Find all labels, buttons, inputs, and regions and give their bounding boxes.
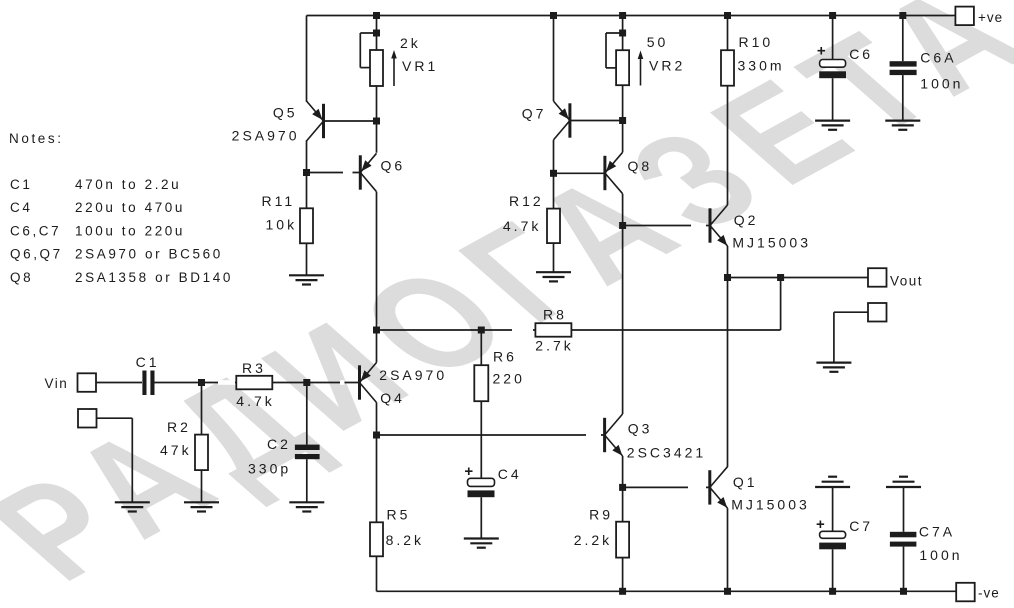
svg-text:+: + xyxy=(464,463,473,480)
svg-text:MJ15003: MJ15003 xyxy=(732,235,811,251)
svg-text:330m: 330m xyxy=(738,58,785,74)
svg-text:2SC3421: 2SC3421 xyxy=(627,445,706,461)
svg-text:Q1: Q1 xyxy=(733,474,758,490)
svg-text:220u to 470u: 220u to 470u xyxy=(75,200,185,215)
svg-text:Q6: Q6 xyxy=(381,158,406,174)
svg-text:2SA970: 2SA970 xyxy=(232,128,300,144)
svg-text:100n: 100n xyxy=(920,76,963,92)
svg-text:C6A: C6A xyxy=(920,50,956,66)
svg-text:C4: C4 xyxy=(10,200,32,215)
svg-text:220: 220 xyxy=(493,371,525,387)
svg-text:330p: 330p xyxy=(248,461,291,477)
svg-text:2.7k: 2.7k xyxy=(535,338,573,354)
svg-text:2.2k: 2.2k xyxy=(574,532,612,548)
svg-text:2SA970 or BC560: 2SA970 or BC560 xyxy=(75,247,223,262)
svg-text:47k: 47k xyxy=(160,442,192,458)
svg-text:R2: R2 xyxy=(167,419,191,435)
svg-text:Q4: Q4 xyxy=(380,390,405,406)
svg-text:Q6,Q7: Q6,Q7 xyxy=(10,247,63,262)
svg-text:Vout: Vout xyxy=(890,274,923,289)
svg-text:C4: C4 xyxy=(498,466,522,482)
svg-text:R12: R12 xyxy=(509,193,544,209)
svg-text:Q2: Q2 xyxy=(734,212,759,228)
svg-text:Q8: Q8 xyxy=(628,158,653,174)
svg-text:Q5: Q5 xyxy=(273,105,298,121)
svg-text:C7A: C7A xyxy=(919,524,955,540)
svg-text:R11: R11 xyxy=(262,193,296,209)
svg-text:R8: R8 xyxy=(543,307,567,323)
svg-text:+: + xyxy=(816,516,825,533)
svg-text:-ve: -ve xyxy=(978,586,1000,601)
svg-text:C1: C1 xyxy=(10,177,32,192)
svg-text:R5: R5 xyxy=(387,507,411,523)
svg-text:2k: 2k xyxy=(400,35,421,51)
svg-text:Q7: Q7 xyxy=(522,106,547,122)
svg-text:C7: C7 xyxy=(849,518,873,534)
svg-text:+: + xyxy=(817,43,826,60)
svg-text:Vin: Vin xyxy=(45,376,69,391)
svg-text:Q3: Q3 xyxy=(628,421,653,437)
svg-text:Notes:: Notes: xyxy=(9,131,64,146)
svg-text:R10: R10 xyxy=(739,34,774,50)
svg-text:C2: C2 xyxy=(267,436,291,452)
svg-text:VR1: VR1 xyxy=(402,58,438,74)
svg-text:+ve: +ve xyxy=(978,10,1003,25)
svg-text:VR2: VR2 xyxy=(649,58,685,74)
svg-text:C6: C6 xyxy=(849,46,873,62)
svg-text:R9: R9 xyxy=(589,507,613,523)
svg-text:4.7k: 4.7k xyxy=(503,218,541,234)
svg-text:10k: 10k xyxy=(266,217,298,233)
svg-text:50: 50 xyxy=(647,34,669,50)
svg-text:C6,C7: C6,C7 xyxy=(10,223,61,238)
svg-text:Q8: Q8 xyxy=(10,270,33,285)
svg-text:100u to 220u: 100u to 220u xyxy=(75,223,185,238)
svg-text:470n to 2.2u: 470n to 2.2u xyxy=(75,177,181,192)
svg-text:8.2k: 8.2k xyxy=(386,532,424,548)
svg-text:R3: R3 xyxy=(242,360,266,376)
svg-text:MJ15003: MJ15003 xyxy=(731,497,810,513)
svg-text:C1: C1 xyxy=(136,354,160,370)
svg-text:100n: 100n xyxy=(919,547,962,563)
svg-text:R6: R6 xyxy=(493,349,517,365)
svg-text:2SA970: 2SA970 xyxy=(379,367,447,383)
svg-text:2SA1358 or BD140: 2SA1358 or BD140 xyxy=(75,270,233,285)
svg-text:4.7k: 4.7k xyxy=(236,393,274,409)
